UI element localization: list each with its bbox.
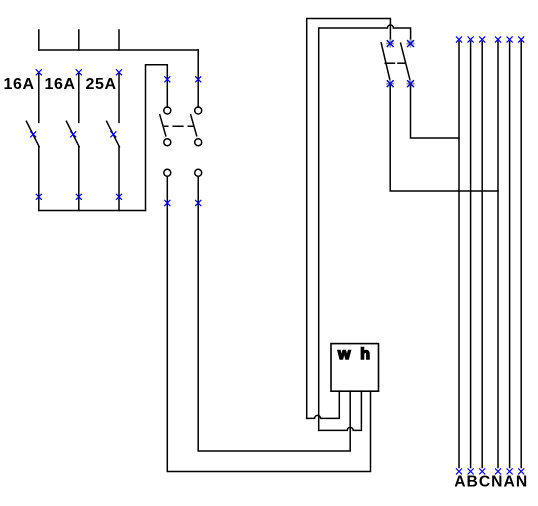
node: QF2 bottom terminal	[76, 194, 81, 199]
node: QF2 blade mid	[71, 132, 76, 137]
breaker QF3 upper wire	[118, 74, 120, 123]
wire: meter T3 to second riser (hop over T2 wire)	[319, 391, 362, 430]
node: QS2 pole1 bottom	[387, 80, 394, 87]
node: QF1 top terminal	[36, 70, 41, 75]
feeder line N2	[520, 42, 522, 468]
node: feeder tops	[456, 37, 523, 42]
breaker QF1 upper wire	[38, 74, 40, 123]
wire: QS2 pole2 down to feeder A	[411, 86, 460, 138]
wire: phase stub 3	[118, 30, 120, 50]
wire: left riser up and over to switch QS2 pole1	[307, 19, 391, 419]
node: QS2 pole2 top	[407, 40, 414, 47]
switch S1 pole2 blade	[191, 115, 197, 136]
switch QS2 link segment 2	[398, 62, 405, 64]
node: switch S1 pole2 feed	[196, 77, 201, 82]
node: pole2 wire	[196, 200, 201, 205]
switch S1 pole1 blade	[160, 115, 166, 136]
wire: breakers bottom bus	[39, 210, 146, 212]
svg-text:ABCNAN: ABCNAN	[454, 474, 528, 491]
node: pole1 wire	[165, 200, 170, 205]
node: QF3 top terminal	[116, 70, 121, 75]
connector pole2 terminal	[195, 169, 202, 176]
wire: meter T1 to left riser (hop over second riser)	[307, 391, 340, 418]
switch S1 mechanical link (dashed)	[163, 125, 193, 127]
svg-text:16A: 16A	[45, 76, 76, 93]
switch S1 pole1 bottom contact	[164, 139, 171, 146]
feeder line B	[470, 42, 472, 468]
node: QS2 pole2 bottom	[407, 80, 414, 87]
breaker QF1 lower wire	[38, 147, 40, 211]
feeder line C	[481, 42, 483, 468]
wire: second riser up and over to switch QS2 pole2 (hop over pole1 wire)	[319, 25, 411, 430]
wire: connector pole2 down to meter T2	[198, 176, 350, 451]
wire: riser from bottom bus to switch pole 1	[146, 65, 168, 211]
connector pole1 terminal	[164, 169, 171, 176]
node: QF1 blade mid	[31, 132, 36, 137]
meter M1 box	[331, 344, 379, 392]
breaker QF2 lower wire	[78, 147, 80, 211]
svg-text:h: h	[360, 346, 370, 363]
breaker QF2 upper wire	[78, 74, 80, 123]
wire: bus corner down to switch pole 2	[197, 50, 199, 107]
breaker QF3 blade	[107, 121, 120, 147]
node: QF1 bottom terminal	[36, 194, 41, 199]
switch S1 pole2 top contact	[195, 107, 202, 114]
node: switch S1 pole1 feed	[165, 77, 170, 82]
node: QS2 pole1 top	[387, 40, 394, 47]
feeder line N	[497, 42, 499, 468]
breaker QF2 blade	[66, 121, 79, 147]
wire: connector pole1 down to meter T4	[167, 176, 370, 471]
switch S1 pole2 bottom contact	[195, 139, 202, 146]
switch S1 pole1 top contact	[164, 107, 171, 114]
svg-text:w: w	[337, 346, 351, 363]
node: QF3 bottom terminal	[116, 194, 121, 199]
wire: phase stub 1	[38, 30, 40, 50]
switch QS2 link segment 1	[385, 62, 394, 64]
node: QF2 top terminal	[76, 70, 81, 75]
wire: QS2 pole1 down to feeder N	[390, 86, 498, 191]
breaker QF1 blade	[26, 121, 39, 147]
svg-text:25A: 25A	[86, 76, 117, 93]
node: QF3 blade mid	[111, 132, 116, 137]
svg-text:16A: 16A	[4, 76, 35, 93]
wire: phase stub 2	[78, 30, 80, 50]
wire: top feeder bus	[39, 49, 198, 51]
feeder line A	[458, 42, 460, 468]
feeder line A2	[509, 42, 511, 468]
switch QS2 pole2 blade	[401, 43, 411, 81]
breaker QF3 lower wire	[118, 147, 120, 211]
node: feeder bottoms	[456, 469, 523, 474]
switch QS2 pole1 blade	[381, 43, 390, 81]
